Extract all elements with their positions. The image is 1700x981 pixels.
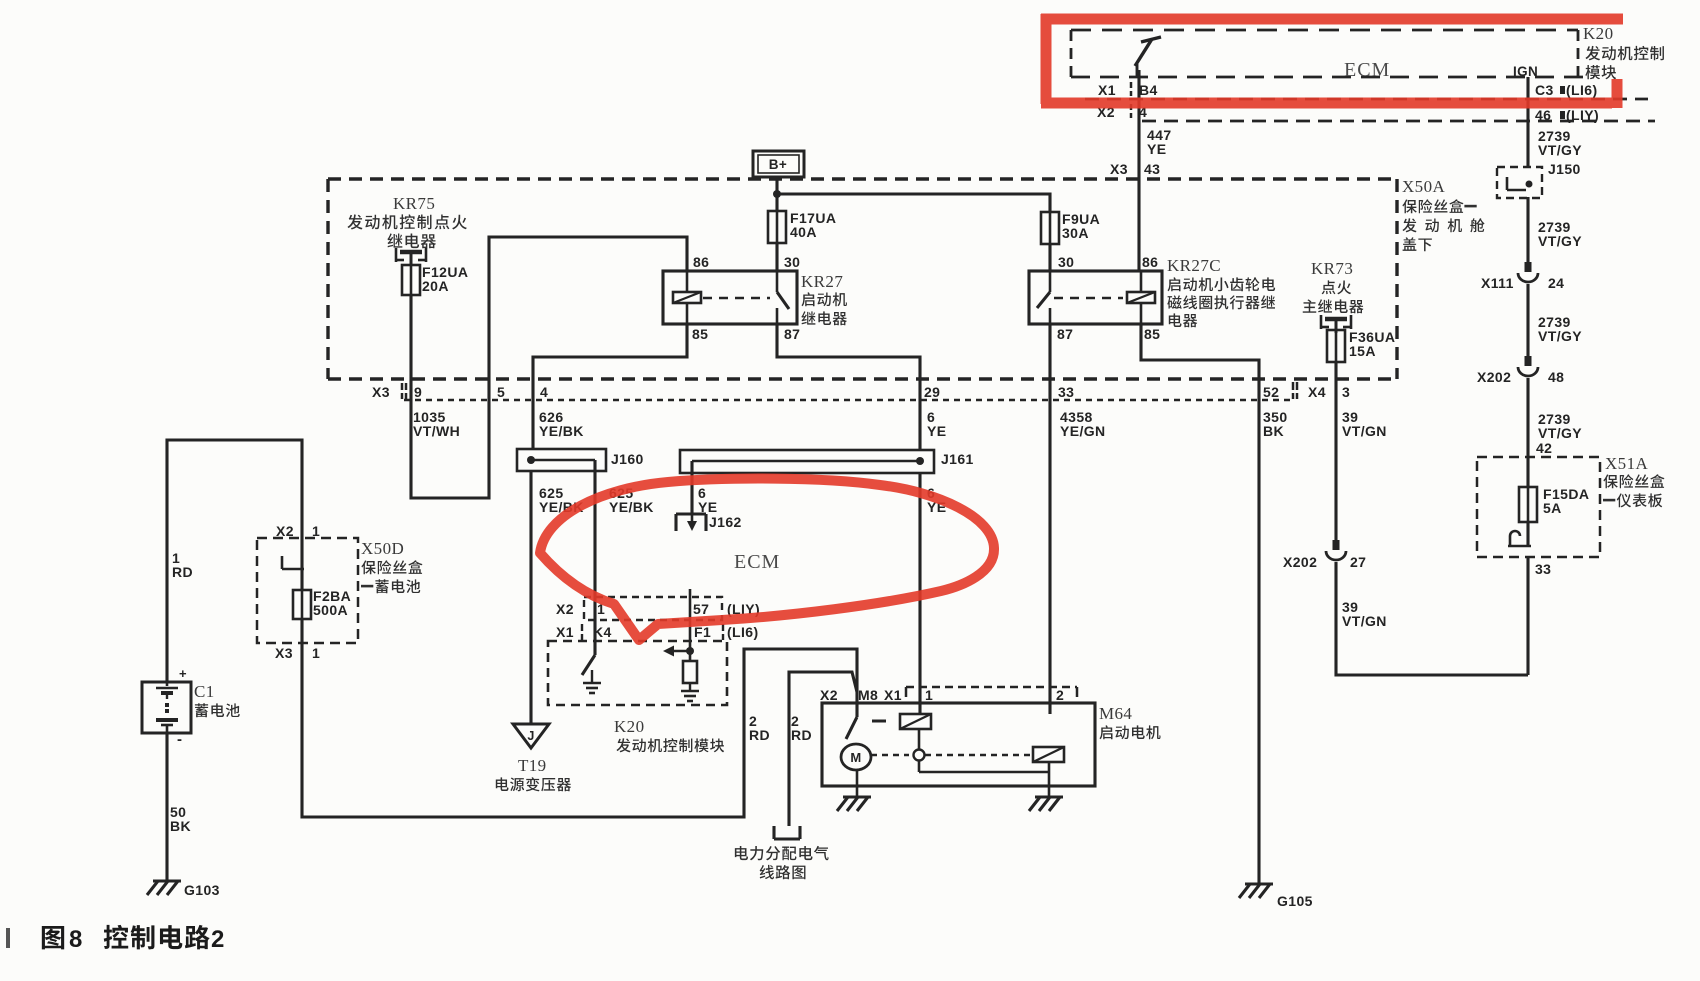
svg-text:J150: J150 [1548, 161, 1581, 177]
pin row X1|B4 C3|(LI6) [1098, 82, 1598, 98]
svg-text:C1: C1 [194, 682, 215, 701]
svg-text:X1: X1 [1098, 82, 1116, 98]
KR27C link dashed [1054, 297, 1123, 300]
svg-text:X50A: X50A [1402, 177, 1445, 196]
page caption [42, 925, 225, 953]
svg-text:YE/BK: YE/BK [539, 423, 584, 439]
svg-text:X3: X3 [372, 384, 390, 400]
fuse block X50D (dashed) [257, 538, 358, 643]
svg-text:J160: J160 [611, 451, 644, 467]
wire battery feed to starter [302, 643, 857, 817]
splice block J161 [680, 450, 974, 473]
splice J162 (arrow terminal) [676, 514, 742, 531]
svg-text:YE: YE [1147, 141, 1166, 157]
svg-text:2: 2 [211, 926, 225, 953]
svg-text:30: 30 [784, 254, 800, 270]
connector X202 pin 48 [1477, 356, 1564, 385]
fuse F36UA 15A [1327, 329, 1395, 362]
J160 junction [527, 456, 595, 464]
svg-text:M: M [850, 750, 861, 765]
svg-text:3: 3 [1342, 384, 1350, 400]
wire 447 YE (ECM B4 to KR27C 86) [1137, 70, 1140, 271]
wire F17UA to KR27 30 [775, 243, 778, 271]
svg-text:X202: X202 [1283, 554, 1317, 570]
M64 motor ground [837, 770, 871, 811]
wire 39 VT/GN (X202-27 to X51A-33) [1336, 562, 1528, 675]
ground G103 [147, 881, 220, 898]
terminal hook in X51A [1508, 531, 1531, 546]
K20 internal: arrow + resistor + ground [663, 646, 699, 702]
battery labels C1 [194, 682, 240, 717]
label 39 VT/GN [1342, 409, 1387, 439]
svg-text:X111: X111 [1481, 275, 1514, 291]
splice J150 (dashed box with terminal) [1497, 161, 1581, 198]
svg-text:KR75: KR75 [393, 194, 435, 213]
svg-text:M64: M64 [1099, 704, 1132, 723]
M64 linkage bar [919, 729, 1049, 772]
K20 pin row X1|K4 F1|(LI6) [556, 624, 759, 640]
red highlight ellipse (center ECM) [540, 479, 994, 640]
wire 4358 YE/GN (KR27C 87 to M64 pin2) [1048, 324, 1051, 714]
svg-text:X4: X4 [1308, 384, 1326, 400]
wire 50 BK to G103 [165, 733, 168, 881]
svg-text:29: 29 [924, 384, 940, 400]
svg-text:K20: K20 [614, 717, 644, 736]
battery C1 [142, 666, 191, 748]
svg-text:IGN: IGN [1513, 64, 1538, 79]
pins 29 33 [924, 384, 1074, 400]
svg-text:20A: 20A [422, 278, 449, 294]
svg-text:30A: 30A [1062, 225, 1089, 241]
svg-text:57: 57 [693, 601, 709, 617]
svg-text:VT/WH: VT/WH [413, 423, 460, 439]
svg-text:1: 1 [312, 523, 320, 539]
wire 625 YE/BK (J160 to T19) [529, 471, 532, 724]
svg-text:15A: 15A [1349, 343, 1376, 359]
X50D terminal hook [282, 556, 304, 569]
svg-text:87: 87 [784, 326, 800, 342]
connector X4 pin 3 / pin 52 separators [1263, 382, 1350, 400]
svg-text:KR73: KR73 [1311, 259, 1353, 278]
K20 module name chinese [1585, 46, 1663, 80]
svg-text:T19: T19 [518, 756, 547, 775]
pin 33 [1535, 561, 1551, 577]
pin row X2|4 46|(LIY) [1097, 104, 1599, 123]
svg-text:4: 4 [540, 384, 548, 400]
K20 pin 57 wire stub [689, 589, 692, 651]
label 6 YE (right) [927, 485, 946, 515]
svg-text:VT/GY: VT/GY [1538, 328, 1582, 344]
svg-text:(LIY): (LIY) [1566, 107, 1599, 123]
X51A labels [1603, 454, 1665, 507]
svg-text:M8: M8 [858, 687, 878, 703]
T19 labels [496, 756, 571, 791]
KR27 coil [673, 271, 701, 324]
label 1 RD [172, 550, 193, 580]
label 2 RD (right) [791, 713, 812, 743]
svg-text:500A: 500A [313, 602, 348, 618]
relay KR27C box [1029, 271, 1162, 324]
transformer T19 [513, 724, 549, 748]
relay KR27 box [663, 271, 797, 324]
fuse F9UA 30A [1041, 211, 1100, 244]
wire 6 YE (J161 right down to ECM 57) [918, 473, 921, 714]
svg-text:C3: C3 [1535, 82, 1554, 98]
svg-text:X1: X1 [884, 687, 902, 703]
scan edge mark [6, 928, 10, 948]
X50D labels [361, 539, 423, 593]
label 625 YE/BK (right) [609, 485, 654, 515]
relay KR73 symbol [1321, 315, 1351, 333]
X50A labels [1402, 177, 1485, 251]
svg-text:ECM: ECM [734, 551, 780, 573]
ground G105 [1239, 884, 1313, 909]
svg-text:(LI6): (LI6) [1566, 82, 1598, 98]
wire 6 YE (KR27 87 to J161) [777, 324, 920, 450]
svg-text:J161: J161 [941, 451, 974, 467]
svg-text:RD: RD [172, 564, 193, 580]
svg-text:VT/GN: VT/GN [1342, 423, 1387, 439]
KR27C coil [1127, 271, 1155, 324]
svg-text:BK: BK [1263, 423, 1284, 439]
M64 labels [1099, 704, 1161, 739]
ECM label (top) [1344, 59, 1390, 81]
splice block J160 [517, 449, 644, 471]
M64 solenoid contact 2 [1033, 747, 1064, 762]
svg-text:KR27C: KR27C [1167, 256, 1221, 275]
power distribution label [735, 846, 829, 879]
M64 solenoid ground [1029, 762, 1063, 811]
wire battery positive loop [167, 440, 302, 682]
svg-text:RD: RD [791, 727, 812, 743]
svg-text:85: 85 [692, 326, 708, 342]
svg-text:B+: B+ [769, 157, 787, 172]
M64 internal dashed link [871, 750, 1031, 761]
label 2739 VT/GY (4) [1538, 411, 1582, 441]
svg-text:8: 8 [69, 926, 83, 953]
label 6 YE (above J161) [927, 409, 946, 439]
wire 625 YE/BK (J160 right to K20 K4) [593, 460, 596, 655]
KR27C switch [1037, 271, 1050, 324]
connector X3 pins 9,5,4 [372, 383, 548, 400]
fuse F15DA 5A [1519, 486, 1589, 522]
K20 module box (dashed) [548, 641, 727, 705]
svg-text:40A: 40A [790, 224, 817, 240]
relay KR75 labels [347, 194, 466, 248]
svg-text:KR27: KR27 [801, 272, 843, 291]
svg-text:48: 48 [1548, 369, 1564, 385]
svg-text:RD: RD [749, 727, 770, 743]
fuse F12UA 20A [402, 264, 468, 295]
K20 pin row X2|1 57|(LIY) [556, 601, 760, 617]
fuse F2BA 500A [293, 588, 351, 619]
svg-text:VT/GY: VT/GY [1538, 425, 1582, 441]
label 447 YE [1147, 127, 1172, 157]
svg-text:52: 52 [1263, 384, 1279, 400]
svg-text:VT/GY: VT/GY [1538, 233, 1582, 249]
svg-text:5A: 5A [1543, 500, 1562, 516]
svg-text:K20: K20 [1583, 24, 1613, 43]
svg-text:ECM: ECM [1344, 59, 1390, 81]
KR27 labels [801, 272, 847, 325]
wire 39 VT/GN (F36UA down) [1334, 362, 1337, 540]
K20 internal switch to ground [582, 620, 601, 693]
pin 42 [1536, 440, 1552, 456]
KR27 pin labels [692, 254, 800, 342]
svg-text:1: 1 [925, 687, 933, 703]
svg-text:1: 1 [312, 645, 320, 661]
svg-text:YE/BK: YE/BK [609, 499, 654, 515]
svg-text:33: 33 [1535, 561, 1551, 577]
svg-text:X2: X2 [820, 687, 838, 703]
svg-text:VT/GY: VT/GY [1538, 142, 1582, 158]
svg-text:9: 9 [414, 384, 422, 400]
wire 6 YE (J161 to J162) [690, 461, 693, 514]
label 2 RD (left) [749, 713, 770, 743]
svg-text:(LI6): (LI6) [727, 624, 759, 640]
svg-text:J: J [527, 729, 534, 743]
svg-text:BK: BK [170, 818, 191, 834]
connector X111 pin 24 [1481, 262, 1564, 291]
K20 labels [614, 717, 724, 752]
wire 2739 VT/GY (ECM C3 down) [1526, 77, 1529, 675]
connector row (dotted) [404, 399, 1290, 402]
M64 switch [846, 703, 857, 739]
label 39 VT/GN (lower) [1342, 599, 1387, 629]
relay KR75 symbol [396, 248, 426, 266]
X50D pin X3|1 [275, 645, 320, 661]
svg-text:42: 42 [1536, 440, 1552, 456]
svg-text:-: - [177, 731, 182, 748]
KR27 switch [777, 271, 789, 324]
svg-text:2: 2 [1056, 687, 1064, 703]
X50D pin X2|1 [276, 523, 320, 539]
M64 solenoid contact 1 [872, 714, 931, 729]
svg-text:X51A: X51A [1605, 454, 1648, 473]
wire 1035 VT/WH loop (F12UA to KR27 86) [411, 237, 687, 498]
svg-text:30: 30 [1058, 254, 1074, 270]
svg-text:X3: X3 [1110, 161, 1128, 177]
junction [773, 190, 781, 198]
ECM module box K20 (dashed) [1071, 30, 1655, 121]
relay KR73 labels [1303, 259, 1364, 313]
svg-text:85: 85 [1144, 326, 1160, 342]
label 2739 VT/GY (3) [1538, 314, 1582, 344]
svg-text:X202: X202 [1477, 369, 1511, 385]
label 2739 VT/GY (2) [1538, 219, 1582, 249]
wire F9UA to KR27C 30 [1048, 244, 1051, 271]
label 2739 VT/GY (1) [1538, 128, 1582, 158]
wire B+ down [775, 177, 778, 211]
svg-text:5: 5 [497, 384, 505, 400]
ignition switch inside ECM [1135, 37, 1161, 77]
label 350 BK [1263, 409, 1288, 439]
fuse F17UA 40A [768, 210, 836, 243]
svg-text:27: 27 [1350, 554, 1366, 570]
label 6 YE (left) [698, 485, 717, 515]
wire 626 YE/BK (KR27 85 to J160) [533, 324, 687, 449]
svg-text:J162: J162 [709, 514, 742, 530]
svg-text:87: 87 [1057, 326, 1073, 342]
svg-text:+: + [179, 666, 187, 681]
svg-text:X3: X3 [275, 645, 293, 661]
B+ terminal [753, 151, 804, 177]
K20 pin row dashed box [584, 597, 722, 620]
svg-text:VT/GN: VT/GN [1342, 613, 1387, 629]
red highlight box (top right) [1041, 14, 1623, 108]
IGN pin label [1513, 64, 1538, 79]
wire 2 RD (to power distribution) [789, 672, 857, 826]
fuse block X51A (dashed) [1477, 457, 1600, 557]
svg-text:X50D: X50D [361, 539, 404, 558]
M64 motor [841, 744, 871, 770]
off-page bracket [774, 826, 800, 839]
svg-text:43: 43 [1144, 161, 1160, 177]
connector X202 pin 27 [1283, 540, 1366, 570]
svg-text:YE: YE [927, 423, 946, 439]
svg-text:46: 46 [1535, 107, 1551, 123]
label 625 YE/BK (left) [539, 485, 584, 515]
label 626 YE/BK [539, 409, 584, 439]
wire through X50D [300, 538, 303, 643]
label 1035 VT/WH [413, 409, 460, 439]
svg-text:X2: X2 [556, 601, 574, 617]
K20 designator (top right) [1583, 24, 1613, 43]
KR27C labels [1167, 256, 1275, 327]
connector X3 pin 43 [1110, 161, 1160, 177]
wire B+ to F9UA [777, 194, 1050, 212]
label 4358 YE/GN [1060, 409, 1106, 439]
svg-text:24: 24 [1548, 275, 1564, 291]
svg-text:X1: X1 [556, 624, 574, 640]
svg-text:X2: X2 [276, 523, 294, 539]
svg-text:33: 33 [1058, 384, 1074, 400]
svg-text:YE/GN: YE/GN [1060, 423, 1106, 439]
ECM center label [734, 551, 780, 573]
svg-text:B4: B4 [1139, 82, 1158, 98]
KR27C pin labels [1057, 254, 1160, 342]
M64 pin labels [820, 687, 1064, 703]
svg-text:G105: G105 [1277, 893, 1313, 909]
M64 connector dashed bracket [906, 687, 1077, 697]
wire 350 BK (KR27C 85 to G105) [1141, 324, 1259, 884]
fuse block X50A (dashed outline) [328, 179, 1397, 379]
starter motor M64 box [822, 703, 1095, 786]
svg-text:G103: G103 [184, 882, 220, 898]
J161 junction [692, 457, 924, 465]
label 50 BK [170, 804, 191, 834]
svg-text:86: 86 [693, 254, 709, 270]
svg-text:86: 86 [1142, 254, 1158, 270]
KR27 coil-switch link (dashed) [703, 297, 770, 300]
